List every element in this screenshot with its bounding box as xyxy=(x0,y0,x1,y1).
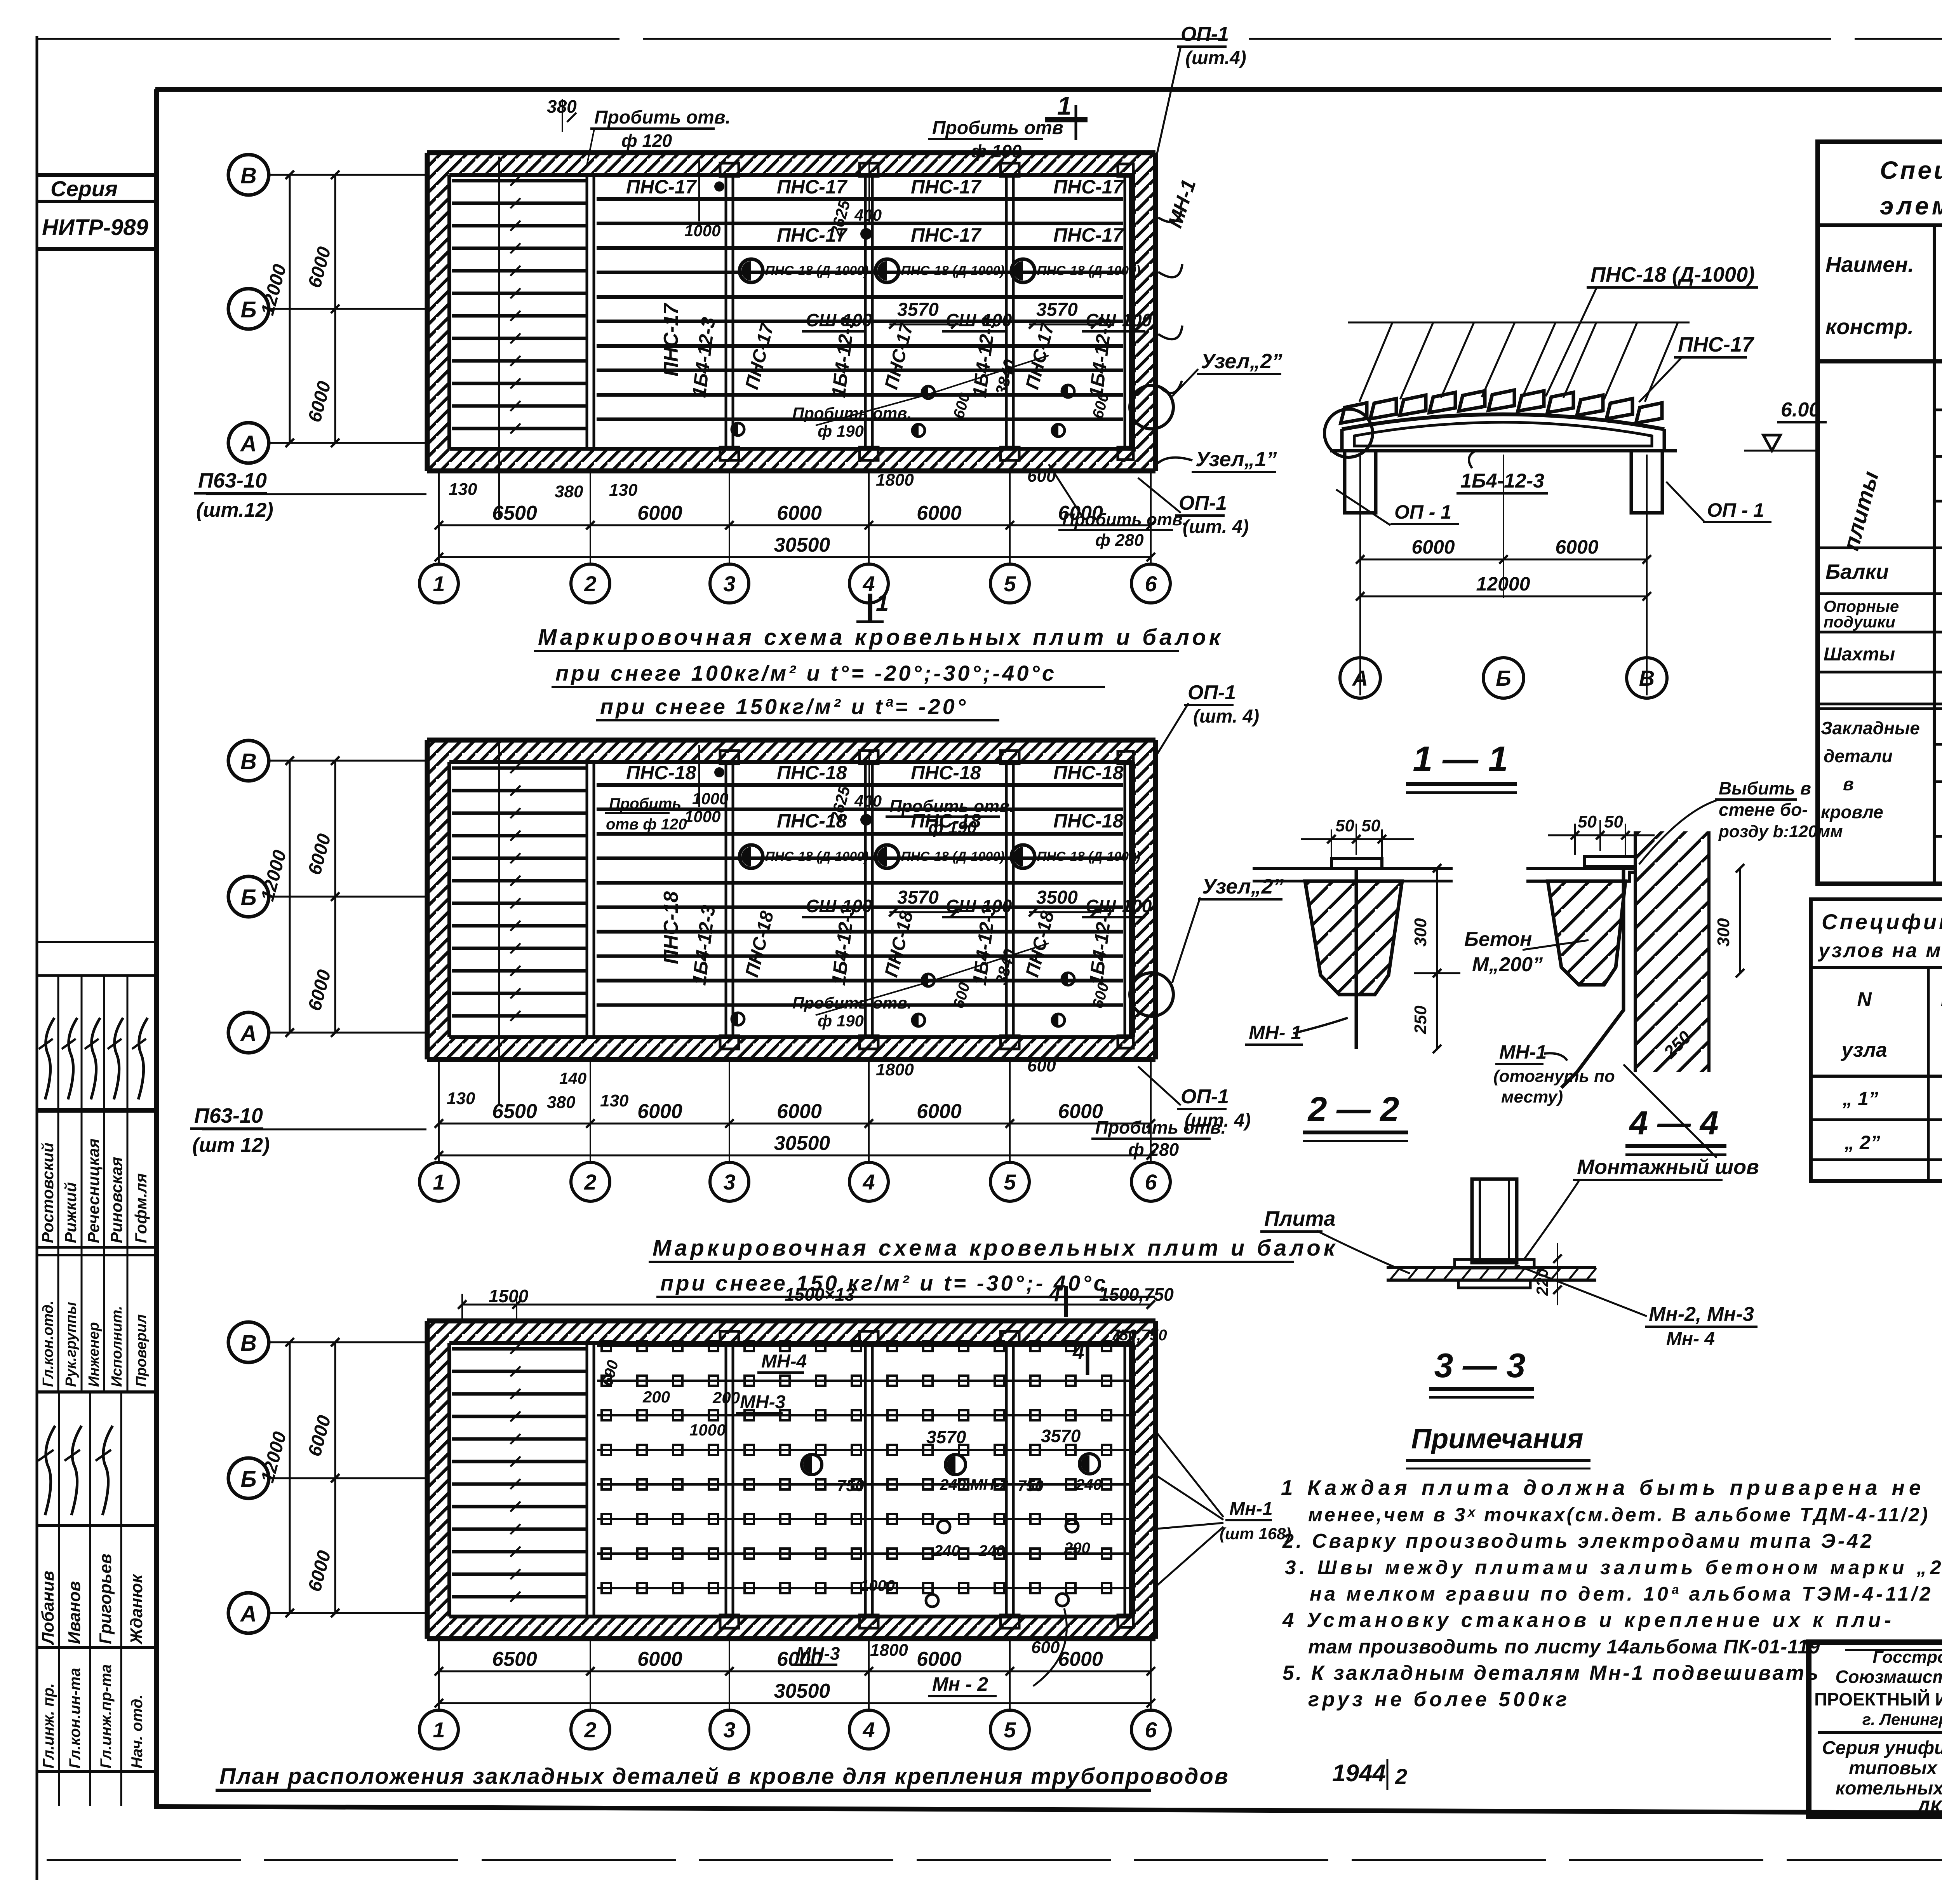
svg-text:1: 1 xyxy=(1057,91,1072,120)
svg-text:Примечания: Примечания xyxy=(1411,1423,1583,1455)
plan3 section mark 4 inner xyxy=(1072,1340,1088,1375)
bottom dim line bays xyxy=(435,1100,1155,1128)
label 1B4-12-3a roof xyxy=(1456,451,1548,493)
span dim 3570 labels xyxy=(889,300,1100,329)
shaft labels SSh-100 xyxy=(802,896,1152,917)
uzel 2 detail circle plan1 xyxy=(1130,350,1282,429)
rotated beam labels 1B4-12-3a xyxy=(688,316,1116,399)
roof section axis circles xyxy=(1340,658,1667,698)
hole marks inside plan xyxy=(714,181,1074,437)
svg-text:5: 5 xyxy=(1004,1170,1016,1194)
rotated beam labels 1B4-12-3a xyxy=(688,904,1116,986)
rotated plate label bay2 xyxy=(660,891,682,964)
svg-text:6000: 6000 xyxy=(1411,536,1455,558)
small dims top xyxy=(684,745,882,826)
rotated small dims xyxy=(827,784,1112,1010)
svg-text:1Б4-12-3: 1Б4-12-3 xyxy=(1460,470,1544,492)
series box xyxy=(37,175,155,249)
svg-text:ПНС-17: ПНС-17 xyxy=(911,176,982,198)
section 3-3 drawing xyxy=(1387,1179,1596,1305)
svg-text:600: 600 xyxy=(1027,1056,1056,1075)
column axis circles 1-6 xyxy=(419,1710,1170,1749)
svg-text:ф 190: ф 190 xyxy=(818,1012,864,1030)
diag dim lines xyxy=(816,943,1049,1015)
note line 2 xyxy=(1308,1504,1930,1526)
svg-text:(шт.12): (шт.12) xyxy=(196,499,273,521)
diag dim lines xyxy=(816,355,1049,425)
svg-text:250: 250 xyxy=(1411,1005,1430,1035)
plan1 caption line2 xyxy=(552,661,1105,687)
svg-text:В: В xyxy=(240,1331,257,1356)
svg-text:Пробить отв.: Пробить отв. xyxy=(594,107,731,128)
row axis circles A B V xyxy=(228,155,427,463)
svg-text:месту): месту) xyxy=(1501,1087,1563,1106)
table row OP-1 xyxy=(1824,597,1942,631)
plan wall band bottom xyxy=(427,1037,1155,1059)
svg-text:6000: 6000 xyxy=(917,1648,962,1671)
svg-text:Маркировочная схема кровельных: Маркировочная схема кровельных плит и ба… xyxy=(653,1235,1338,1261)
svg-text:6500: 6500 xyxy=(492,1100,537,1123)
anchor plate grid MN-1 xyxy=(597,1341,1129,1593)
svg-text:Б: Б xyxy=(240,885,256,910)
svg-text:400: 400 xyxy=(854,792,882,810)
svg-text:детали: детали xyxy=(1824,746,1893,766)
plan wall band top xyxy=(427,740,1155,762)
svg-text:ПНС-17: ПНС-17 xyxy=(1053,224,1124,246)
svg-text:380: 380 xyxy=(555,482,583,501)
note line 8 xyxy=(1282,1662,1820,1685)
svg-text:Б: Б xyxy=(1496,666,1511,690)
beams 1B4-12-3a verticals xyxy=(587,175,1130,449)
svg-text:„ 2”: „ 2” xyxy=(1844,1132,1880,1153)
svg-text:12000: 12000 xyxy=(1476,573,1530,595)
svg-text:1: 1 xyxy=(433,571,445,596)
svg-text:подушки: подушки xyxy=(1824,613,1895,631)
svg-text:(шт. 4): (шт. 4) xyxy=(1183,517,1249,537)
svg-text:ПНС-17: ПНС-17 xyxy=(626,176,697,198)
svg-text:2: 2 xyxy=(1395,1764,1407,1789)
svg-text:Мн-2, Мн-3: Мн-2, Мн-3 xyxy=(1649,1303,1754,1326)
svg-text:6: 6 xyxy=(1145,571,1157,596)
svg-text:Гл.кон.ин-та: Гл.кон.ин-та xyxy=(66,1668,84,1768)
svg-text:Пробить отв.: Пробить отв. xyxy=(792,994,912,1012)
svg-text:при снеге 100кг/м² и t°= -20°;: при снеге 100кг/м² и t°= -20°;-30°;-40°с xyxy=(555,661,1056,685)
svg-text:Проверил: Проверил xyxy=(133,1314,150,1387)
svg-text:ПНС-18: ПНС-18 xyxy=(1053,810,1124,832)
svg-text:240: 240 xyxy=(934,1542,960,1559)
svg-text:ПРОЕКТНЫЙ ИНСТИТУТ № 1: ПРОЕКТНЫЙ ИНСТИТУТ № 1 xyxy=(1814,1689,1942,1709)
plan2 corner leaders OP-1 top xyxy=(1157,681,1259,754)
svg-text:А: А xyxy=(240,1021,257,1046)
svg-text:ф 190: ф 190 xyxy=(971,141,1022,161)
rotated plate labels near beams xyxy=(741,321,1058,392)
plan wall band left xyxy=(427,740,449,1059)
svg-text:3: 3 xyxy=(723,1170,735,1194)
svg-text:Узел„1”: Узел„1” xyxy=(1195,448,1277,471)
svg-text:„ 1”: „ 1” xyxy=(1842,1088,1878,1110)
svg-text:30500: 30500 xyxy=(774,1680,830,1702)
svg-text:Спецификация сборных железоб: Спецификация сборных железобетонных xyxy=(1880,156,1942,184)
svg-text:400: 400 xyxy=(854,206,882,224)
plan1 caption line1 xyxy=(534,625,1223,651)
svg-text:3570: 3570 xyxy=(1041,1426,1081,1446)
svg-text:Ростовский: Ростовский xyxy=(38,1143,57,1243)
svg-text:1: 1 xyxy=(876,590,889,616)
table rows zakladnye xyxy=(1821,712,1942,869)
svg-text:Рук.группы: Рук.группы xyxy=(63,1302,79,1387)
plan2 probit otv text xyxy=(886,797,1015,837)
label PNS-17 roof xyxy=(1639,333,1755,402)
svg-text:Иванов: Иванов xyxy=(65,1581,84,1644)
svg-text:ПНС-17: ПНС-17 xyxy=(1678,333,1755,356)
MN-2 MN-3 MN-4 labels xyxy=(1515,1265,1758,1349)
signature strip lower group xyxy=(37,1392,155,1806)
svg-text:Маркировочная схема кровельных: Маркировочная схема кровельных плит и ба… xyxy=(538,625,1223,650)
svg-text:Гл.инж. пр.: Гл.инж. пр. xyxy=(40,1683,57,1768)
svg-text:6000: 6000 xyxy=(637,1648,682,1671)
svg-text:30500: 30500 xyxy=(774,1132,830,1155)
svg-text:на мелком гравии по дет. 10ª а: на мелком гравии по дет. 10ª альбома ТЭМ… xyxy=(1310,1583,1933,1605)
plan wall band bottom xyxy=(427,449,1155,471)
section mark 1 top xyxy=(1045,91,1088,140)
svg-text:4: 4 xyxy=(1072,1340,1084,1364)
label OP-1 left xyxy=(1336,490,1459,525)
plan 1 marking scheme xyxy=(427,153,1155,517)
plan2 corner leaders OP-1 bottom xyxy=(1138,1066,1251,1131)
plan3 bottom labels xyxy=(792,1608,1067,1696)
extension lines to axis circles xyxy=(439,1062,1151,1162)
svg-text:240: 240 xyxy=(1075,1476,1102,1493)
svg-text:Союзмашстройпроект: Союзмашстройпроект xyxy=(1835,1667,1942,1687)
svg-text:при снеге 150 кг/м² и t= -30°;: при снеге 150 кг/м² и t= -30°;- 40°с xyxy=(660,1271,1108,1295)
montazhny shov label xyxy=(1524,1155,1759,1259)
svg-text:6.00: 6.00 xyxy=(1781,399,1820,421)
svg-text:130: 130 xyxy=(600,1091,629,1110)
plan wall band left xyxy=(427,153,449,471)
svg-text:ПНС-18 (Д-1000): ПНС-18 (Д-1000) xyxy=(1037,849,1140,864)
svg-text:240: 240 xyxy=(978,1542,1005,1559)
bottom dim line bays xyxy=(435,502,1155,530)
bearing pads OP-1 marks xyxy=(720,751,1133,1049)
bearing pads OP-1 marks xyxy=(720,163,1133,460)
svg-text:3: 3 xyxy=(723,571,735,596)
svg-text:там производить по листу 14аль: там производить по листу 14альбома ПК-01… xyxy=(1308,1636,1820,1658)
row axis circles A B V xyxy=(228,1322,427,1633)
svg-text:6500: 6500 xyxy=(492,502,537,524)
plan2 uzel2 xyxy=(1130,875,1284,1016)
svg-text:Пробить: Пробить xyxy=(609,795,681,812)
svg-text:750,750: 750,750 xyxy=(1111,1327,1167,1344)
plan wall band right xyxy=(1133,740,1155,1059)
montage units spec table xyxy=(1811,899,1942,1181)
svg-text:ПНС-17: ПНС-17 xyxy=(660,303,682,376)
svg-text:Выбить в: Выбить в xyxy=(1719,778,1811,798)
svg-text:М„200”: М„200” xyxy=(1472,953,1543,976)
svg-text:1944: 1944 xyxy=(1332,1760,1386,1787)
svg-text:стене бо-: стене бо- xyxy=(1719,800,1808,820)
rotated plate labels near beams xyxy=(741,909,1058,979)
level mark 6.00 xyxy=(1744,399,1827,451)
svg-text:3570: 3570 xyxy=(897,887,939,908)
plan3 caption line2 xyxy=(656,1271,1155,1297)
roof plate joint lines xyxy=(597,199,1123,419)
svg-text:при снеге 150кг/м² и tª= -20°: при снеге 150кг/м² и tª= -20° xyxy=(600,694,968,719)
svg-text:элементов на маркировочную: элементов на маркировочную схему xyxy=(1880,192,1942,220)
svg-text:Гофм.ля: Гофм.ля xyxy=(132,1173,150,1243)
svg-text:ПНС-18: ПНС-18 xyxy=(660,891,682,964)
column axis circles 1-6 xyxy=(419,564,1170,603)
svg-text:2: 2 xyxy=(584,1170,596,1194)
plan1 corner leaders OP-1 xyxy=(1138,23,1249,537)
svg-text:Нач. отд.: Нач. отд. xyxy=(129,1695,146,1768)
svg-text:3570: 3570 xyxy=(926,1427,966,1447)
small dims top xyxy=(684,159,882,240)
table row SSh-100 xyxy=(1824,634,1942,673)
svg-text:Серия унифицированных: Серия унифицированных xyxy=(1822,1738,1942,1758)
plan2 probit otv 280 xyxy=(1091,1117,1226,1160)
MN-1 otognut label xyxy=(1493,1041,1615,1106)
svg-text:В: В xyxy=(240,163,257,188)
svg-text:Гл.кон.отд.: Гл.кон.отд. xyxy=(40,1300,56,1387)
frame left xyxy=(154,89,159,1809)
svg-text:менее,чем в 3ˣ точках(см.дет.: менее,чем в 3ˣ точках(см.дет. В альбоме … xyxy=(1308,1504,1930,1526)
bottom dim line total 30500 xyxy=(435,534,1155,561)
svg-text:2: 2 xyxy=(584,1718,596,1742)
svg-text:(шт.4): (шт.4) xyxy=(1185,48,1246,68)
svg-text:1500,750: 1500,750 xyxy=(1099,1284,1174,1305)
svg-text:узла: узла xyxy=(1840,1039,1887,1061)
svg-text:В: В xyxy=(1639,666,1655,690)
stair plates P63-10 xyxy=(452,1344,588,1602)
svg-text:600: 600 xyxy=(1031,1638,1060,1657)
bottom caption plan raspolozheniya xyxy=(216,1764,1229,1790)
plan wall band right xyxy=(1133,1321,1155,1639)
svg-text:290: 290 xyxy=(1064,1540,1090,1557)
plan 3 anchor layout xyxy=(427,1321,1167,1639)
svg-text:Риновская: Риновская xyxy=(107,1157,125,1243)
svg-text:1: 1 xyxy=(433,1170,445,1194)
svg-text:ПНС-18: ПНС-18 xyxy=(1053,762,1124,784)
svg-text:Пробить отв.: Пробить отв. xyxy=(889,797,1015,816)
plan2 inner annotation probit otv f120 xyxy=(602,789,728,834)
svg-text:розду b:120мм: розду b:120мм xyxy=(1718,822,1843,841)
svg-text:6000: 6000 xyxy=(777,1100,822,1123)
svg-text:НИТР-989: НИТР-989 xyxy=(42,215,148,240)
svg-text:1000: 1000 xyxy=(692,789,728,808)
section 4-4 wall detail xyxy=(1526,812,1744,1158)
shaft labels SSh-100 xyxy=(802,310,1152,331)
svg-text:П63-10: П63-10 xyxy=(198,469,267,492)
beams 1B4-12-3a verticals xyxy=(587,762,1130,1037)
svg-text:ф 280: ф 280 xyxy=(1128,1139,1179,1160)
vybit v stene text xyxy=(1639,778,1843,864)
svg-text:ПНС-18 (Д-1000): ПНС-18 (Д-1000) xyxy=(765,849,868,864)
stair plates P63-10 xyxy=(452,763,588,1021)
shaft plates PNS-18(D-1000) with holes xyxy=(740,845,1140,868)
inner leader texts probit otv xyxy=(792,404,1056,490)
svg-text:Монтажный шов: Монтажный шов xyxy=(1577,1155,1759,1179)
svg-text:140: 140 xyxy=(559,1069,586,1087)
svg-text:200: 200 xyxy=(712,1388,740,1407)
roof section dims xyxy=(1356,455,1651,695)
svg-text:ПНС-18 (Д-1000): ПНС-18 (Д-1000) xyxy=(765,263,868,278)
svg-text:6: 6 xyxy=(1145,1718,1157,1742)
svg-text:130: 130 xyxy=(609,481,638,500)
svg-text:50: 50 xyxy=(1578,812,1597,831)
svg-text:ОП - 1: ОП - 1 xyxy=(1707,499,1764,521)
svg-text:6000: 6000 xyxy=(637,502,682,524)
table group label plity rotated xyxy=(1838,469,1884,553)
svg-text:30500: 30500 xyxy=(774,534,830,556)
roof plate joint lines xyxy=(597,785,1123,1005)
beams 1B4-12-3a verticals xyxy=(587,1343,1130,1617)
note line 7 xyxy=(1308,1636,1820,1658)
svg-text:груз не более 500кг: груз не более 500кг xyxy=(1308,1688,1570,1711)
svg-text:кровле: кровле xyxy=(1821,802,1883,822)
bottom dim line bays xyxy=(435,1648,1155,1676)
svg-text:5: 5 xyxy=(1004,1718,1016,1742)
MN-1 leader right of plan1 xyxy=(1158,177,1201,393)
extension lines to axis circles xyxy=(439,1641,1151,1709)
svg-text:1800: 1800 xyxy=(876,470,914,490)
svg-text:200: 200 xyxy=(642,1388,670,1406)
svg-text:МН-4: МН-4 xyxy=(761,1351,807,1372)
section 2-2 beam detail xyxy=(1253,816,1460,1053)
svg-text:N: N xyxy=(1857,988,1872,1011)
P63-10 label left xyxy=(194,469,426,521)
hole marks inside plan xyxy=(714,767,1074,1026)
section 4-4 heading xyxy=(1625,1104,1726,1155)
plan2 140 dim xyxy=(447,1069,629,1112)
column axis circles 1-6 xyxy=(419,1162,1170,1201)
sheet left border xyxy=(36,36,38,1880)
plan1 caption line3 xyxy=(596,694,999,720)
inner leader texts probit otv xyxy=(792,994,1056,1079)
svg-text:2. Сварку производить электрод: 2. Сварку производить электродами типа Э… xyxy=(1282,1530,1874,1552)
document number 1944-2 xyxy=(1332,1759,1407,1790)
svg-text:300: 300 xyxy=(1714,918,1733,947)
svg-text:50: 50 xyxy=(1361,816,1380,835)
svg-text:750: 750 xyxy=(1018,1477,1044,1495)
svg-text:6: 6 xyxy=(1145,1170,1157,1194)
svg-text:г. Ленинград 19 70г: г. Ленинград 19 70г xyxy=(1862,1710,1942,1728)
shaft plates PNS-18(D-1000) with holes xyxy=(740,259,1140,282)
svg-text:Исполнит.: Исполнит. xyxy=(109,1306,125,1387)
svg-text:4: 4 xyxy=(862,571,875,596)
svg-text:План расположения закладных де: План расположения закладных деталей в кр… xyxy=(219,1764,1229,1789)
svg-text:1000: 1000 xyxy=(684,221,720,240)
svg-text:1800: 1800 xyxy=(870,1641,908,1660)
svg-text:П63-10: П63-10 xyxy=(194,1104,263,1127)
svg-text:ф 190: ф 190 xyxy=(818,422,864,440)
svg-text:А: А xyxy=(240,431,257,456)
svg-text:Гл.инж.пр-та: Гл.инж.пр-та xyxy=(97,1664,115,1768)
title block xyxy=(1809,1642,1942,1817)
svg-text:Мн- 4: Мн- 4 xyxy=(1666,1329,1715,1349)
plan3 section mark 4 top xyxy=(1048,1282,1066,1317)
plan wall band right xyxy=(1133,153,1155,471)
svg-text:А: А xyxy=(1352,666,1368,690)
plan 2 marking scheme xyxy=(427,740,1155,1106)
svg-text:ф 280: ф 280 xyxy=(1095,531,1144,550)
section 2-2 heading xyxy=(1303,1090,1408,1141)
svg-text:(шт. 4): (шт. 4) xyxy=(1193,706,1259,727)
svg-text:4 — 4: 4 — 4 xyxy=(1629,1104,1718,1142)
svg-text:ф 190: ф 190 xyxy=(928,818,977,837)
section 1-1 heading xyxy=(1406,739,1517,793)
extension lines to axis circles xyxy=(439,473,1151,563)
svg-text:Б: Б xyxy=(240,1467,256,1492)
svg-text:ПНС-17: ПНС-17 xyxy=(911,224,982,246)
svg-text:в: в xyxy=(1843,774,1854,794)
svg-text:4: 4 xyxy=(862,1718,875,1742)
svg-text:узлов на маркировочную схему: узлов на маркировочную схему xyxy=(1817,939,1942,962)
svg-text:ф 120: ф 120 xyxy=(621,131,672,151)
note line 6 xyxy=(1282,1609,1895,1632)
P63-10 label left plan2 xyxy=(190,1104,426,1157)
svg-text:3570: 3570 xyxy=(1036,300,1078,320)
vertical dim lines 12000/6000 xyxy=(257,171,339,447)
svg-text:Плита: Плита xyxy=(1264,1207,1335,1230)
svg-text:6000: 6000 xyxy=(1555,536,1598,558)
svg-text:типовых проектов: типовых проектов xyxy=(1849,1758,1942,1779)
svg-text:МН-3: МН-3 xyxy=(796,1643,840,1664)
svg-text:750: 750 xyxy=(837,1476,864,1495)
title block institute cell xyxy=(1814,1648,1942,1818)
svg-text:1 Каждая плита должна быть при: 1 Каждая плита должна быть приварена не xyxy=(1281,1475,1925,1500)
svg-text:1 — 1: 1 — 1 xyxy=(1413,739,1508,779)
svg-text:240 МН-2: 240 МН-2 xyxy=(940,1476,1008,1493)
section mark 1 bottom xyxy=(856,590,889,622)
svg-text:6000: 6000 xyxy=(917,1100,962,1123)
roof section hatch leader lines xyxy=(1348,322,1690,402)
svg-text:5. К закладным деталям Мн-1 по: 5. К закладным деталям Мн-1 подвешивать xyxy=(1282,1662,1820,1685)
svg-text:4: 4 xyxy=(1048,1282,1061,1306)
svg-text:ПНС-18 (Д-1000): ПНС-18 (Д-1000) xyxy=(1037,263,1140,278)
svg-text:5: 5 xyxy=(1004,571,1016,596)
rotated plate label bay2 xyxy=(660,303,682,376)
svg-text:Бетон: Бетон xyxy=(1464,928,1532,951)
small dims 130 380 130 xyxy=(449,480,638,501)
svg-text:1000: 1000 xyxy=(689,1421,726,1439)
svg-text:1500×13: 1500×13 xyxy=(785,1284,855,1305)
svg-text:Балки: Балки xyxy=(1825,560,1889,584)
svg-text:отв ф 120: отв ф 120 xyxy=(606,816,687,833)
sheet bottom border xyxy=(47,1859,1942,1861)
plan wall band bottom xyxy=(427,1617,1155,1639)
note line 5 xyxy=(1310,1583,1933,1605)
table row balki xyxy=(1825,554,1942,592)
svg-text:6000: 6000 xyxy=(1058,1648,1103,1671)
plate labels row2 xyxy=(777,224,1124,246)
sheet top border xyxy=(37,38,1942,40)
frame bottom xyxy=(157,1806,1942,1815)
svg-text:ОП-1: ОП-1 xyxy=(1181,23,1229,45)
svg-text:2: 2 xyxy=(584,571,596,596)
svg-text:Закладные: Закладные xyxy=(1821,718,1920,738)
svg-text:ПНС-18: ПНС-18 xyxy=(777,762,847,784)
svg-text:3570: 3570 xyxy=(897,300,939,320)
svg-text:Пробить отв.: Пробить отв. xyxy=(1095,1117,1226,1138)
svg-text:ОП - 1: ОП - 1 xyxy=(1394,501,1451,523)
plan3 caption line1 xyxy=(649,1235,1338,1262)
svg-text:380: 380 xyxy=(547,1093,576,1112)
plan wall band top xyxy=(427,153,1155,175)
plate labels row2 xyxy=(777,810,1124,832)
svg-text:6000: 6000 xyxy=(637,1100,682,1123)
svg-text:Спецификация монтажных: Спецификация монтажных xyxy=(1822,909,1942,934)
plate labels row1 xyxy=(626,762,1124,784)
